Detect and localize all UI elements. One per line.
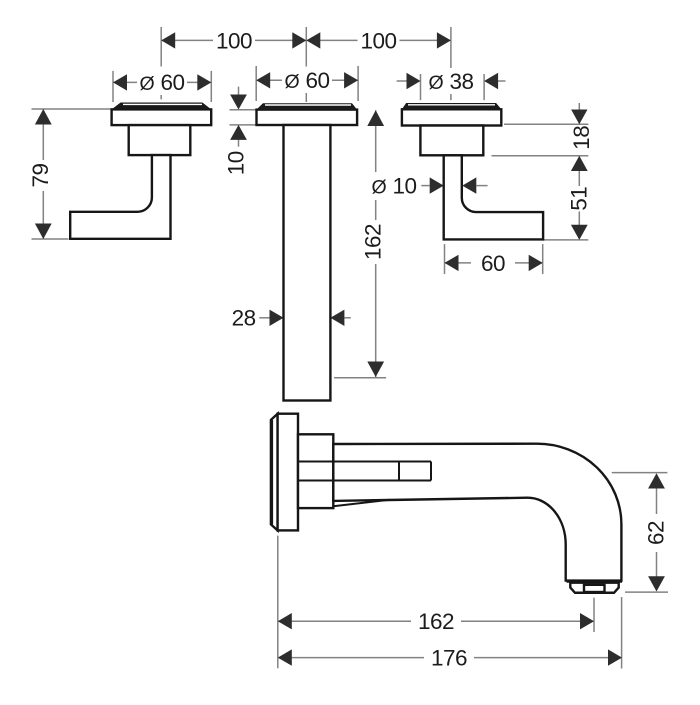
right handle lever bbox=[444, 155, 543, 239]
arrow Ø60L right bbox=[197, 74, 211, 90]
svg-text:Ø 38: Ø 38 bbox=[429, 69, 474, 94]
spout end line bbox=[567, 580, 623, 583]
arrow Ø60M right bbox=[344, 72, 358, 88]
dimension 100/100 top: extension ticks bbox=[161, 27, 451, 68]
dimension 162 bottom bbox=[278, 536, 594, 669]
right handle body bbox=[420, 126, 483, 156]
arrow 10 top (down) bbox=[230, 95, 247, 110]
arrow bowtie right bbox=[306, 32, 320, 48]
svg-text:51: 51 bbox=[567, 187, 592, 211]
arrow Ø60M left bbox=[256, 72, 270, 88]
arrow 18 top (down) bbox=[571, 110, 587, 125]
svg-text:60: 60 bbox=[481, 251, 505, 276]
arrow 162v top bbox=[367, 110, 384, 126]
arrow 51 bottom (down) bbox=[571, 225, 588, 240]
arrow 176 left bbox=[278, 649, 292, 665]
right handle cap (dark band) bbox=[402, 103, 501, 109]
svg-text:100: 100 bbox=[360, 28, 396, 53]
arrow 162b left bbox=[278, 613, 292, 629]
dimension Ø60 middle ticks bbox=[256, 66, 358, 102]
arrow bowtie left bbox=[292, 32, 306, 48]
left handle escutcheon bbox=[112, 109, 212, 125]
svg-text:18: 18 bbox=[569, 126, 594, 150]
svg-text:Ø 10: Ø 10 bbox=[372, 173, 417, 198]
aerator inner recess bbox=[584, 585, 605, 592]
dimension Ø38 right bbox=[397, 74, 506, 100]
arrow 62 bottom (down) bbox=[648, 576, 665, 591]
svg-text:162: 162 bbox=[360, 224, 385, 260]
arrow Ø10 right (points left) bbox=[462, 177, 476, 193]
svg-text:62: 62 bbox=[643, 521, 668, 545]
text gaps (white halos) bbox=[213, 28, 255, 53]
arrow Ø38 right (outside) bbox=[484, 73, 498, 89]
left handle cap (dark band) bbox=[112, 103, 212, 110]
dimension leader Ø10 bbox=[421, 185, 487, 187]
arrow 60 left bbox=[445, 255, 459, 271]
dimension 62 right bbox=[612, 473, 668, 592]
arrow 162v bottom bbox=[367, 362, 384, 378]
arrow 100 right bbox=[437, 32, 451, 48]
arrow 62 top (up) bbox=[648, 473, 665, 488]
arrow Ø38 left (outside) bbox=[407, 73, 421, 89]
wire dim line 100/100 bbox=[161, 39, 451, 41]
left handle lever bbox=[70, 155, 170, 239]
aerator bbox=[570, 583, 618, 593]
spout taper wedge bbox=[333, 500, 390, 507]
svg-text:176: 176 bbox=[431, 645, 467, 670]
svg-text:162: 162 bbox=[418, 609, 454, 634]
arrow Ø60L left bbox=[113, 74, 127, 90]
dimension 79 left bbox=[32, 109, 112, 239]
spout rosette plate bbox=[278, 414, 298, 531]
svg-text:Ø 60: Ø 60 bbox=[285, 68, 330, 93]
dimension 10 middle-left bbox=[230, 87, 257, 147]
svg-text:79: 79 bbox=[28, 163, 53, 187]
right handle escutcheon bbox=[402, 109, 501, 125]
arrow 100 left bbox=[161, 32, 175, 48]
arrow Ø10 left (points right) bbox=[430, 177, 444, 193]
svg-text:10: 10 bbox=[223, 151, 248, 175]
middle cap (dark band) bbox=[257, 103, 358, 109]
arrow 28 left (points right) bbox=[270, 310, 284, 326]
spout body bbox=[333, 444, 621, 581]
spout inner union bar bbox=[298, 462, 431, 481]
arrow 79 bottom bbox=[35, 224, 52, 240]
arrow 18/51 shared (up) bbox=[571, 156, 588, 171]
spout rosette flange bbox=[271, 414, 278, 531]
dimension 162 vertical bbox=[334, 110, 386, 377]
svg-text:Ø 60: Ø 60 bbox=[140, 70, 185, 95]
dimension Ø60 left ticks bbox=[113, 71, 211, 102]
arrow 79 top bbox=[35, 109, 52, 125]
arrow 28 right (points left) bbox=[330, 310, 344, 326]
arrow 162b right bbox=[580, 613, 594, 629]
dimension 176 bottom bbox=[278, 597, 622, 669]
dimension 18 and 51 right bbox=[492, 103, 589, 240]
dimension 60 below right handle bbox=[445, 244, 543, 274]
middle escutcheon bbox=[257, 110, 358, 125]
dimension 28 leaders bbox=[259, 317, 351, 319]
arrow 60 right bbox=[529, 255, 543, 271]
spout base cylinder bbox=[298, 434, 333, 508]
arrow 10 bottom (up) bbox=[230, 125, 247, 140]
svg-text:28: 28 bbox=[232, 306, 256, 331]
middle pipe bbox=[284, 125, 331, 401]
left handle body bbox=[129, 125, 191, 155]
arrow 176 right bbox=[608, 649, 622, 665]
svg-text:100: 100 bbox=[216, 28, 252, 53]
